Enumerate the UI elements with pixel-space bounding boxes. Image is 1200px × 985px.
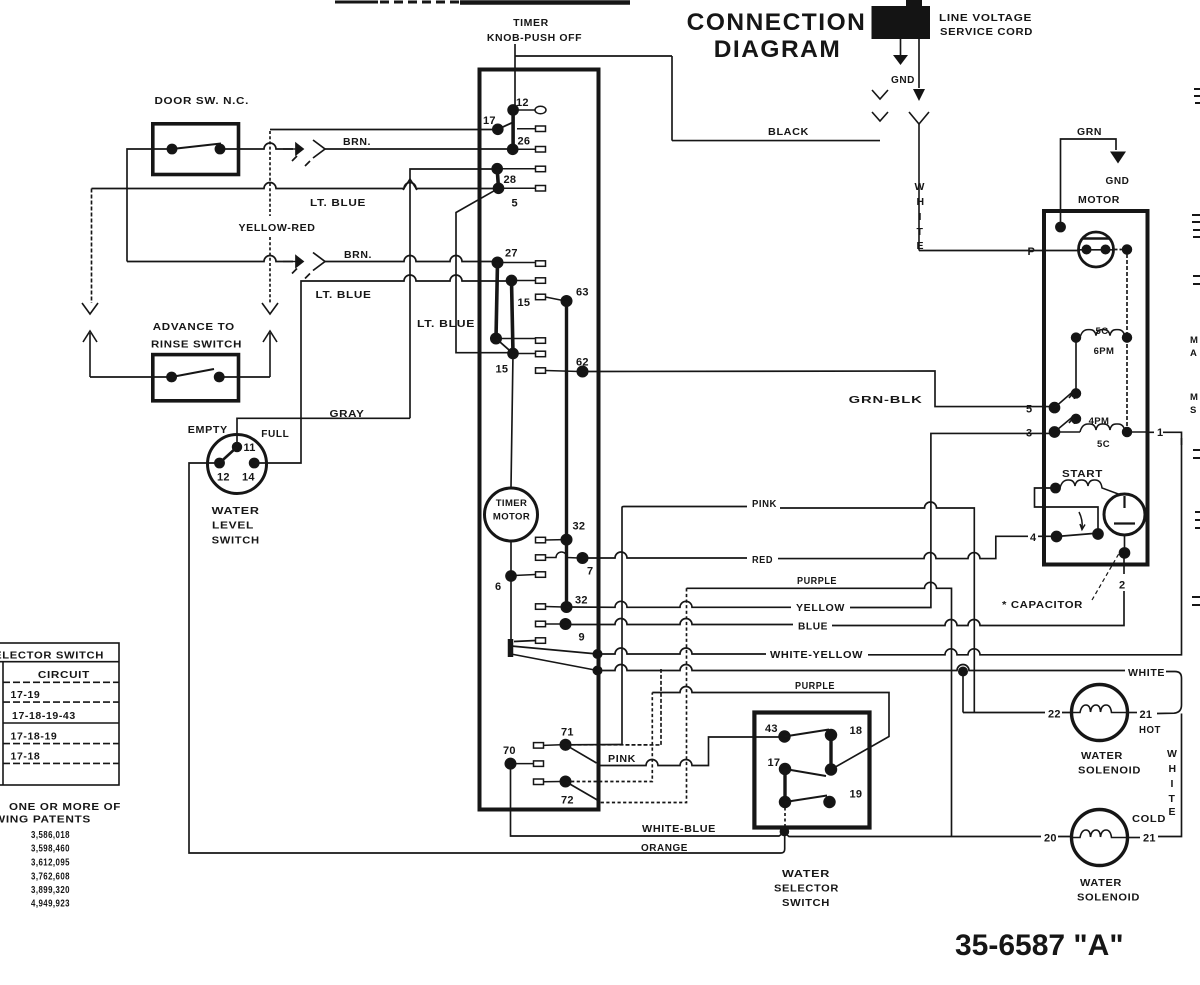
patents note xyxy=(0,801,121,826)
timer motor feed wire xyxy=(511,354,513,577)
wire BLACK xyxy=(672,140,880,142)
selector lever 17b-19 xyxy=(785,796,827,803)
svg-text:ONE OR MORE OF: ONE OR MORE OF xyxy=(9,801,121,813)
svg-text:4PM: 4PM xyxy=(1089,416,1110,427)
svg-text:GRN: GRN xyxy=(1077,126,1102,138)
svg-text:KNOB-PUSH OFF: KNOB-PUSH OFF xyxy=(487,32,582,44)
timer bar 63-32 xyxy=(565,301,568,607)
svg-text:BRN.: BRN. xyxy=(344,249,372,261)
selector dot 19 xyxy=(824,797,835,808)
wire WHITE-YELLOW xyxy=(598,438,1182,655)
timer junction node bar xyxy=(508,639,514,657)
svg-text:5C: 5C xyxy=(1096,326,1109,337)
timer contact dot row3 xyxy=(492,164,502,174)
svg-text:H: H xyxy=(1169,763,1177,775)
timer lever stub 17 xyxy=(498,123,513,130)
wire YELLOW-RED vertical xyxy=(269,131,271,303)
wire WHITE-BLUE xyxy=(511,764,1072,837)
label 4PM 5C lower xyxy=(1089,416,1110,450)
right edge fragment marks y450 xyxy=(1193,450,1200,458)
title CONNECTION DIAGRAM xyxy=(687,9,867,63)
capacitor leader line xyxy=(1092,550,1121,600)
svg-text:28: 28 xyxy=(504,174,517,186)
BRN connector fork xyxy=(305,140,325,166)
start switch fixed dot xyxy=(1093,529,1103,539)
motor pin 1 xyxy=(1154,424,1163,439)
wire motor 2 to blue xyxy=(1123,553,1125,592)
wire to rinse switch left xyxy=(90,376,168,378)
timer lug terminal 26 row xyxy=(517,147,546,153)
ground arrow symbol xyxy=(893,55,908,65)
svg-text:S: S xyxy=(1190,405,1197,416)
hot solenoid pin 21 xyxy=(1137,706,1153,722)
svg-text:WHITE: WHITE xyxy=(1128,667,1165,679)
svg-text:EMPTY: EMPTY xyxy=(188,424,228,436)
selector lever 17-18 xyxy=(785,769,826,776)
wire YELLOW xyxy=(567,433,1051,607)
cold solenoid pin 20 xyxy=(1041,829,1058,845)
timer lug terminal 32 upper row xyxy=(536,537,564,543)
selector contact dot 17 xyxy=(780,764,791,775)
lt blue disconnect fork xyxy=(82,303,98,314)
timer contact dot 17 xyxy=(493,124,503,134)
wire motor 1 to white-yellow xyxy=(1148,432,1182,445)
svg-text:DOOR SW. N.C.: DOOR SW. N.C. xyxy=(155,95,250,107)
svg-text:14: 14 xyxy=(242,472,255,484)
motor right dotted bus xyxy=(1114,250,1128,433)
timer lug terminal 71 row xyxy=(534,743,562,749)
timer contact dot 62 xyxy=(577,366,587,376)
wire 72 to purple lower xyxy=(566,693,653,782)
motor lower winding 5C xyxy=(1058,424,1148,436)
svg-text:COLD: COLD xyxy=(1132,813,1166,825)
yellow-red disconnect arrow xyxy=(263,331,277,377)
BRN connector arrow xyxy=(283,144,303,162)
start switch bottom dot xyxy=(1120,548,1130,558)
wire WHITE xyxy=(598,665,1182,706)
wire BRN lower into timer 27 xyxy=(325,256,494,262)
wire pink to solenoid 22 xyxy=(963,705,1072,713)
start winding outer detour xyxy=(1035,488,1099,531)
cold solenoid coil xyxy=(1072,830,1128,838)
white cord lead xyxy=(918,39,920,88)
svg-text:P: P xyxy=(1028,246,1036,258)
svg-text:M: M xyxy=(1190,392,1198,403)
timer contact dot 27 xyxy=(492,257,502,267)
wire GRN xyxy=(1061,139,1117,227)
svg-text:62: 62 xyxy=(576,357,589,369)
node diagonal to white xyxy=(511,654,598,671)
wire RED xyxy=(583,536,1053,558)
timer lever 72 xyxy=(566,782,597,800)
timer lug terminal 72 row xyxy=(534,779,562,785)
svg-text:3: 3 xyxy=(1026,428,1032,440)
wire LT BLUE upper xyxy=(92,183,496,189)
label PINK upper xyxy=(749,497,780,510)
svg-text:WHITE-BLUE: WHITE-BLUE xyxy=(642,823,716,835)
wire white to motor P xyxy=(919,250,1044,252)
timer lever stub 27-15 xyxy=(496,339,513,354)
motor protector internals xyxy=(1079,239,1113,254)
label WHITE vertical right xyxy=(1167,748,1178,818)
label WATER SOLENOID hot xyxy=(1078,750,1141,777)
timer lug terminal 27 lower row xyxy=(499,338,546,344)
timer contact dot 12 xyxy=(508,105,518,115)
timer contact dot 26 xyxy=(508,144,518,154)
svg-text:3,762,608: 3,762,608 xyxy=(31,871,70,883)
svg-text:GRAY: GRAY xyxy=(330,408,365,420)
svg-text:4: 4 xyxy=(1030,532,1037,544)
table rows xyxy=(11,689,76,763)
svg-text:DIAGRAM: DIAGRAM xyxy=(714,36,842,63)
start switch actuator xyxy=(1079,512,1085,530)
svg-text:PINK: PINK xyxy=(608,753,636,765)
wire LT BLUE from water level 14 xyxy=(254,275,508,463)
BRN lower connector fork xyxy=(305,253,325,279)
motor contact dot 3 xyxy=(1050,427,1060,437)
svg-text:SOLENOID: SOLENOID xyxy=(1077,892,1140,904)
svg-text:LINE VOLTAGE: LINE VOLTAGE xyxy=(939,12,1032,24)
svg-text:MOTOR: MOTOR xyxy=(493,512,530,523)
svg-text:43: 43 xyxy=(765,723,778,735)
timer lug terminal 63 row xyxy=(536,294,564,300)
lt blue left vertical xyxy=(91,189,93,304)
svg-text:63: 63 xyxy=(576,287,589,299)
wire BRN into timer 26 xyxy=(325,148,509,150)
motor lever 4 xyxy=(1057,534,1094,537)
wire white right side down xyxy=(1158,714,1182,837)
selector bar 18 xyxy=(829,731,832,772)
svg-text:4,949,923: 4,949,923 xyxy=(31,898,70,910)
svg-text:HOT: HOT xyxy=(1139,724,1161,736)
selector contact dot 43 xyxy=(779,731,790,742)
svg-text:70: 70 xyxy=(503,745,516,757)
svg-text:SELECTOR SWITCH: SELECTOR SWITCH xyxy=(0,650,104,662)
svg-text:GND: GND xyxy=(891,74,915,86)
label YELLOW xyxy=(793,599,845,614)
arrow on 410 wire xyxy=(403,179,417,190)
svg-text:ORANGE: ORANGE xyxy=(641,842,688,854)
timer contact dot 7 xyxy=(577,553,587,563)
svg-text:20: 20 xyxy=(1044,833,1057,845)
svg-text:BLACK: BLACK xyxy=(768,126,809,138)
timer contact dot 15 lower xyxy=(508,349,518,359)
wire PURPLE upper xyxy=(687,582,952,836)
wire yellow-red top run to timer 17 xyxy=(270,129,496,131)
node lead to lug xyxy=(514,641,536,642)
wire GRAY water level 11 to timer xyxy=(237,418,410,447)
timer lever row3-28 xyxy=(497,169,498,189)
svg-text:YELLOW-RED: YELLOW-RED xyxy=(239,222,316,234)
hot solenoid pin 22 xyxy=(1045,705,1062,721)
svg-text:WATER: WATER xyxy=(782,868,830,880)
timer contact dot 32 lower xyxy=(561,602,571,612)
svg-text:12: 12 xyxy=(516,97,529,109)
timer contact dot 72 xyxy=(560,776,570,786)
svg-text:19: 19 xyxy=(850,789,863,801)
svg-text:2: 2 xyxy=(1119,580,1125,592)
wire white to hot 21 xyxy=(1157,705,1182,714)
timer contact dot 63 xyxy=(561,296,571,306)
node diagonal to white-yellow xyxy=(511,646,598,654)
svg-text:15: 15 xyxy=(518,297,531,309)
motor grn entry dot xyxy=(1056,222,1065,231)
motor contact dot 5 xyxy=(1050,403,1060,413)
timer contact dot 71 xyxy=(560,740,570,750)
timer lever 71 xyxy=(566,745,597,763)
svg-text:E: E xyxy=(1169,806,1177,818)
white junction dot xyxy=(959,667,967,675)
svg-text:E: E xyxy=(917,240,925,252)
svg-text:32: 32 xyxy=(573,521,586,533)
svg-text:32: 32 xyxy=(575,595,588,607)
BRN lower connector arrow xyxy=(283,256,303,274)
timer contact dot 70 xyxy=(505,758,515,768)
motor box xyxy=(1044,211,1148,565)
timer contact dot 28/5 xyxy=(494,183,504,193)
wire P terminal xyxy=(1044,250,1079,252)
junction dot white on timer edge xyxy=(593,666,601,674)
selector bar 17 xyxy=(783,769,786,802)
svg-text:71: 71 xyxy=(561,727,574,739)
svg-text:WHITE-YELLOW: WHITE-YELLOW xyxy=(770,649,863,661)
right edge fragment marks y280 xyxy=(1193,276,1200,284)
svg-text:RED: RED xyxy=(752,554,773,566)
svg-text:9: 9 xyxy=(579,632,585,644)
right edge fragment marks y220 xyxy=(1192,215,1200,237)
svg-text:CONNECTION: CONNECTION xyxy=(687,9,867,36)
svg-text:3,899,320: 3,899,320 xyxy=(31,884,70,896)
timer lug terminal row3 xyxy=(501,166,546,172)
svg-text:W: W xyxy=(1167,748,1178,760)
cord arrow down xyxy=(913,89,925,101)
cold solenoid pin 21 xyxy=(1140,829,1156,845)
timer motor circle xyxy=(485,488,538,541)
timer lug terminal 7 row xyxy=(536,552,580,560)
start switch circle xyxy=(1104,494,1145,535)
label 5C 6PM upper xyxy=(1094,326,1115,357)
svg-text:I: I xyxy=(919,211,923,223)
timer lever bar 15 xyxy=(512,281,514,354)
svg-text:15: 15 xyxy=(496,364,509,376)
svg-text:BLUE: BLUE xyxy=(798,621,828,633)
water level switch circle xyxy=(208,435,267,494)
wire PINK lower xyxy=(597,737,783,766)
label WATER SOLENOID cold xyxy=(1077,877,1140,904)
patent numbers xyxy=(31,829,70,910)
svg-text:WATER: WATER xyxy=(1080,877,1122,889)
timer lug terminal 15 lower row xyxy=(516,351,546,357)
motor lever 3 xyxy=(1055,417,1075,432)
door switch contacts xyxy=(167,144,224,154)
label PURPLE lower xyxy=(793,679,839,692)
selector 17 bottom exit xyxy=(784,802,786,828)
svg-text:WATER: WATER xyxy=(1081,750,1123,762)
svg-text:17-18: 17-18 xyxy=(11,751,41,763)
timer lug terminal 28 row xyxy=(502,186,546,192)
svg-text:3,586,018: 3,586,018 xyxy=(31,829,70,841)
motor contact dot 4 xyxy=(1052,532,1062,542)
motor dot 4PM xyxy=(1072,414,1081,423)
rinse switch contacts xyxy=(167,369,224,382)
timer lever bar 27 xyxy=(496,263,498,339)
wire BRN lower run xyxy=(127,256,293,262)
svg-text:11: 11 xyxy=(244,442,256,454)
wire lt blue diagonal to timer 5 xyxy=(456,188,510,352)
timer lug terminal 17 row xyxy=(517,126,546,132)
svg-text:H: H xyxy=(917,196,925,208)
svg-text:LT. BLUE: LT. BLUE xyxy=(310,197,366,209)
wire 71 horizontal to vertical xyxy=(566,744,662,746)
label WHITE vertical cord xyxy=(915,181,926,252)
svg-text:17: 17 xyxy=(768,757,781,769)
svg-text:SWITCH: SWITCH xyxy=(782,897,830,909)
wire timer top to black xyxy=(515,44,672,141)
svg-text:PURPLE: PURPLE xyxy=(795,680,835,692)
water selector switch box xyxy=(754,713,869,828)
water solenoid hot circle xyxy=(1072,685,1128,741)
svg-text:17-18-19-43: 17-18-19-43 xyxy=(12,710,76,722)
svg-text:18: 18 xyxy=(850,725,863,737)
svg-text:12: 12 xyxy=(217,472,230,484)
svg-text:6: 6 xyxy=(495,581,501,593)
wire rinse switch right to yellow-red xyxy=(219,376,270,378)
wire selector stub to white-blue xyxy=(783,828,785,832)
grn ground arrow xyxy=(1110,152,1126,164)
wire PINK upper xyxy=(622,502,974,744)
svg-text:ADVANCE TO: ADVANCE TO xyxy=(153,321,235,333)
svg-text:3,612,095: 3,612,095 xyxy=(31,857,70,869)
svg-text:1: 1 xyxy=(1157,427,1163,439)
timer contact dot 27 lower xyxy=(491,333,501,343)
svg-text:LEVEL: LEVEL xyxy=(212,520,254,532)
wire white down to solenoid 22 xyxy=(962,672,964,713)
svg-text:GRN-BLK: GRN-BLK xyxy=(849,394,923,406)
line voltage service cord (black block) xyxy=(872,0,931,39)
label ADVANCE TO RINSE SWITCH xyxy=(151,321,242,351)
timer lug terminal 12 xyxy=(517,106,546,114)
door switch box xyxy=(153,124,239,175)
timer contact dot 6 xyxy=(506,571,516,581)
motor protector circle xyxy=(1079,232,1114,267)
timer box xyxy=(480,70,599,810)
start switch internals xyxy=(1114,496,1135,524)
svg-text:M: M xyxy=(1190,335,1198,346)
selector switch table frame xyxy=(0,643,119,785)
svg-text:TIMER: TIMER xyxy=(513,17,549,29)
water solenoid cold circle xyxy=(1072,810,1128,866)
purple upper vertical to selector 72 xyxy=(599,588,687,802)
svg-text:21: 21 xyxy=(1143,833,1156,845)
label WATER SELECTOR SWITCH xyxy=(774,868,839,909)
svg-text:5: 5 xyxy=(1026,404,1032,416)
svg-text:RINSE SWITCH: RINSE SWITCH xyxy=(151,339,242,351)
label WHITE horizontal xyxy=(1126,665,1165,679)
right edge fragment marks top xyxy=(1194,89,1200,103)
selector dot 18 top xyxy=(826,730,837,741)
svg-text:35-6587 "A": 35-6587 "A" xyxy=(955,929,1124,962)
black wire disconnect forks xyxy=(872,90,888,121)
label TIMER MOTOR xyxy=(493,498,530,523)
timer lug terminal 62 row xyxy=(536,368,580,374)
water level contacts 11 12 14 xyxy=(215,443,259,468)
svg-text:SELECTOR: SELECTOR xyxy=(774,883,839,895)
motor bus dot top xyxy=(1123,245,1132,254)
motor lever 5 xyxy=(1055,392,1075,408)
wire ORANGE from water level 12 xyxy=(189,463,785,853)
hot solenoid coil xyxy=(1072,705,1128,713)
svg-text:21: 21 xyxy=(1140,709,1153,721)
svg-text:T: T xyxy=(1169,793,1176,805)
label WATER LEVEL SWITCH xyxy=(212,505,260,547)
label RED xyxy=(749,552,776,566)
svg-text:26: 26 xyxy=(518,136,531,148)
selector dot 18 bottom xyxy=(826,764,837,775)
svg-text:PURPLE: PURPLE xyxy=(797,575,837,587)
svg-text:PINK: PINK xyxy=(752,498,777,510)
top border line xyxy=(335,1,630,5)
white-blue junction dot xyxy=(780,828,788,836)
timer lever 12-26 xyxy=(511,110,515,149)
motor main winding 5C 6PM xyxy=(1072,330,1132,342)
svg-text:SWITCH: SWITCH xyxy=(212,535,260,547)
svg-text:5C: 5C xyxy=(1097,439,1110,450)
timer lug terminal 6 row xyxy=(514,572,546,578)
selector lever 43-18 xyxy=(785,730,830,737)
label WHITE-BLUE xyxy=(640,821,718,835)
svg-text:GND: GND xyxy=(1106,175,1130,187)
svg-text:MOTOR: MOTOR xyxy=(1078,194,1120,206)
timer lug terminal node row xyxy=(536,638,546,644)
svg-text:START: START xyxy=(1062,468,1103,480)
timer lug terminal 9 row xyxy=(536,621,563,627)
svg-text:YELLOW: YELLOW xyxy=(796,602,845,614)
wire 72 lever to purple upper xyxy=(597,800,600,803)
svg-text:SERVICE CORD: SERVICE CORD xyxy=(940,26,1033,38)
motor start winding xyxy=(1051,480,1121,495)
timer node below 6 xyxy=(510,576,512,641)
svg-text:17-18-19: 17-18-19 xyxy=(11,731,58,743)
svg-text:WING PATENTS: WING PATENTS xyxy=(0,814,91,826)
svg-text:A: A xyxy=(1190,348,1197,359)
wire 71 to pink xyxy=(566,744,622,746)
svg-text:T: T xyxy=(917,226,924,238)
label BLUE xyxy=(794,618,831,633)
right edge letter fragments xyxy=(1190,335,1198,416)
label line voltage service cord xyxy=(939,12,1033,38)
timer lug terminal 70 row xyxy=(515,761,544,767)
svg-text:22: 22 xyxy=(1048,709,1061,721)
wire 71 dotted vertical to white xyxy=(660,669,662,745)
wire timer contact via vertical 410 xyxy=(410,169,497,418)
timer lug terminal 32 lower row xyxy=(536,604,564,610)
wire BRN door switch to timer xyxy=(224,143,293,149)
wire start switch to 2 xyxy=(1124,535,1126,553)
white wire disconnect fork xyxy=(909,112,929,251)
timer contact dot 9 xyxy=(560,619,570,629)
wire 62 to GRN-BLK motor 5 xyxy=(583,371,1051,407)
label TIMER KNOB-PUSH OFF xyxy=(487,17,582,44)
motor pin 4 xyxy=(1028,528,1038,544)
svg-text:72: 72 xyxy=(561,795,574,807)
yellow-red disconnect fork xyxy=(262,303,278,314)
wire BLUE xyxy=(566,592,1125,626)
label WHITE-YELLOW xyxy=(767,647,866,661)
selector dot 17 bottom xyxy=(780,797,791,808)
timer contact dot 32 xyxy=(561,534,571,544)
timer lug terminal 27 row xyxy=(501,261,546,267)
wire PURPLE lower xyxy=(652,687,889,770)
